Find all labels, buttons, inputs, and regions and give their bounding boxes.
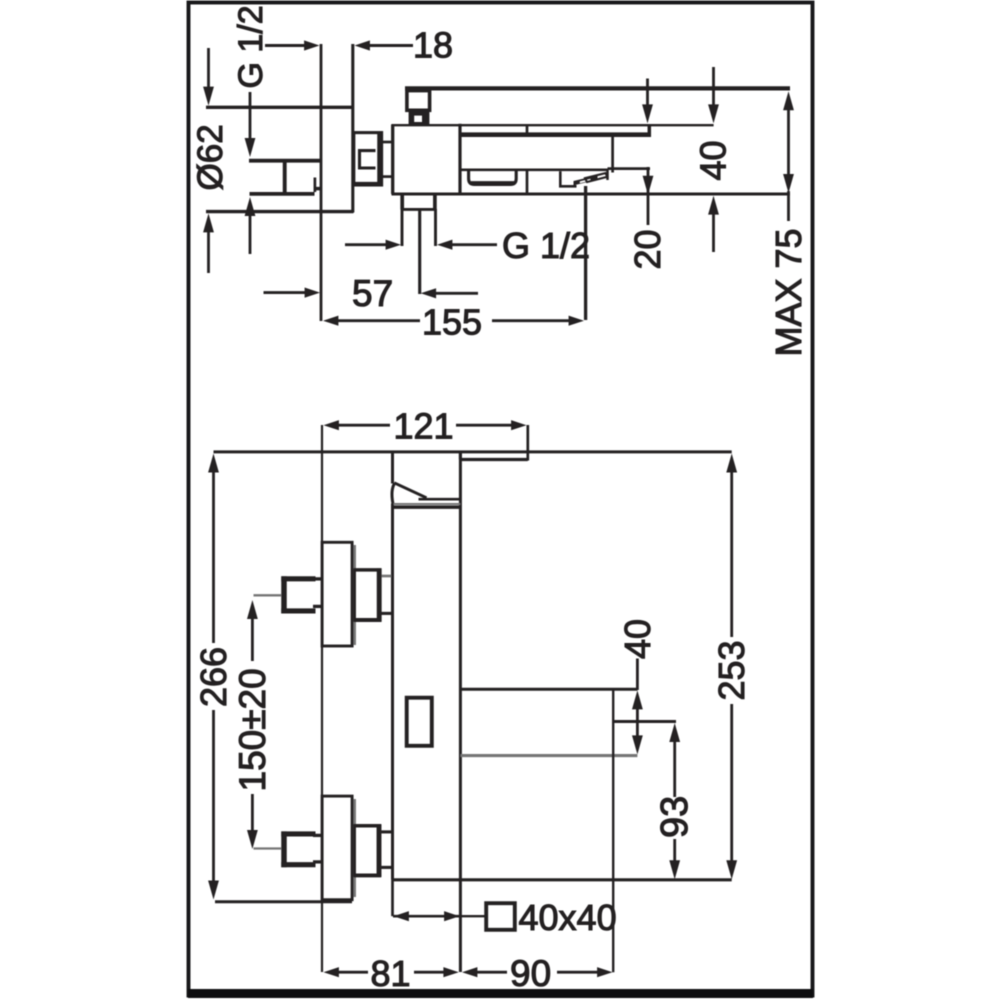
svg-text:MAX 75: MAX 75 [768, 228, 809, 356]
handle stem [409, 112, 430, 126]
dimension 57 right arrow [421, 288, 478, 298]
svg-text:150±20: 150±20 [232, 668, 273, 791]
outlet top line [460, 688, 637, 691]
lower union nut [281, 831, 315, 867]
baseline (bath rim line) [392, 193, 791, 196]
lower centre line stub [254, 847, 282, 849]
dimension 18 right arrow [355, 40, 414, 50]
pipe centre line [418, 209, 421, 294]
svg-text:155: 155 [422, 302, 482, 343]
aerator under spout [469, 171, 517, 185]
dimension 40 top arrow [708, 67, 719, 123]
lower band line right [608, 167, 651, 170]
supply G1/2 dimension lower arrow [245, 197, 256, 254]
dimension 93 bottom arrow [669, 839, 680, 879]
upper centre line stub [254, 594, 282, 596]
union stub to wall [315, 187, 321, 191]
valve body left edge [391, 125, 394, 195]
svg-text:253: 253 [711, 640, 752, 700]
wall plate right edge (side view) [351, 44, 354, 213]
dimension 81 right arrow [414, 967, 459, 977]
lower connector top line [381, 830, 391, 833]
dimension 253 top arrow [726, 454, 737, 638]
handle lever beak left curve [392, 483, 395, 503]
svg-text:20: 20 [627, 229, 668, 269]
svg-text:G 1/2: G 1/2 [232, 5, 270, 88]
lower connector right edge [433, 194, 437, 210]
spout width stub [391, 880, 394, 916]
drawing frame border [188, 3, 813, 999]
diverter lever (side view) [560, 171, 607, 186]
svg-text:Ø62: Ø62 [191, 124, 230, 190]
wall surface line [320, 44, 323, 321]
dimension 18 left arrow [265, 40, 320, 50]
svg-text:90: 90 [510, 953, 551, 994]
dimension 40 bottom arrow [708, 196, 719, 252]
extension line x322 [321, 425, 323, 972]
inner section vertical [611, 137, 614, 173]
supply G1/2 dimension upper arrow [245, 92, 256, 157]
top edge line [214, 450, 732, 453]
band division upper [526, 125, 529, 137]
body bottom line [392, 878, 732, 881]
dimension 121 right arrow [456, 420, 527, 430]
lower wall flange [322, 796, 355, 900]
dimension Ø62 top arrow [203, 48, 214, 106]
dimension 57 left arrow [264, 288, 321, 298]
svg-text:40x40: 40x40 [519, 897, 617, 938]
supply elbow bottom line [250, 192, 315, 196]
spout end cap [648, 125, 652, 137]
body top thin line [392, 124, 714, 126]
top step line [460, 458, 527, 461]
outlet right edge extension [612, 689, 614, 972]
upper union nut [281, 576, 315, 613]
nipple bottom line [382, 175, 392, 178]
dimension 20 top arrow [642, 79, 653, 124]
band division lower [526, 170, 529, 194]
G1/2 lower dim left arrow [345, 240, 401, 250]
lower band step corner [606, 169, 609, 180]
bottom extension line [215, 900, 352, 903]
extension line x527.8 [526, 425, 529, 461]
handle knob [407, 91, 430, 111]
dimension 253 bottom arrow [726, 704, 737, 879]
dimension 81 left arrow [324, 967, 369, 977]
dimension 40 outlet arrows [632, 690, 643, 754]
outlet step line [613, 720, 676, 723]
spout bottom thick line [460, 132, 650, 137]
svg-text:93: 93 [654, 796, 696, 838]
dimension 155 right arrow [492, 316, 584, 326]
svg-text:266: 266 [193, 647, 234, 707]
lower connector left edge [400, 194, 404, 210]
svg-text:18: 18 [413, 25, 453, 66]
lower band line left [460, 168, 608, 171]
dimension 150±20 top arrow [247, 600, 258, 661]
valve body right edge [458, 124, 461, 194]
top thick line (spout top) [405, 86, 790, 90]
label window on column [407, 698, 432, 746]
leader to square symbol [460, 915, 484, 917]
dimension 20 lower line with arrow [643, 167, 654, 225]
union small vertical [314, 178, 317, 193]
dimension 150±20 bottom arrow [247, 794, 258, 849]
svg-text:40: 40 [617, 619, 658, 659]
extension line x402 [401, 209, 404, 246]
lower union pipe lines [313, 835, 322, 862]
upper eccentric [354, 568, 381, 621]
lower eccentric [354, 824, 381, 877]
wall plate top edge [206, 106, 354, 109]
dimension 90 right arrow [557, 967, 613, 977]
dimension 266 bottom arrow [208, 710, 219, 900]
lower connector bottom line [381, 866, 391, 869]
top step vertical [459, 452, 462, 460]
handle joint line [419, 498, 461, 501]
wall plate bottom edge [206, 210, 354, 213]
spout width dimension arrows [393, 911, 460, 921]
svg-text:81: 81 [371, 953, 411, 994]
outlet bottom gray line [460, 754, 637, 757]
body column left edge lower [391, 504, 394, 880]
dimension 121 left arrow [324, 420, 391, 430]
handle joint gray line [394, 503, 461, 505]
square section symbol [486, 903, 515, 930]
supply pipe top line (behind wall) [249, 159, 320, 163]
nipple top line [382, 141, 392, 144]
svg-text:G 1/2: G 1/2 [502, 225, 590, 266]
body column right edge [459, 452, 462, 972]
dimension 93 top arrow [669, 723, 680, 797]
svg-text:57: 57 [352, 273, 393, 314]
dimension Ø62 bottom arrow [203, 213, 214, 273]
svg-text:121: 121 [394, 406, 454, 447]
G1/2 lower dim right arrow [437, 240, 497, 250]
handle joint dark line [392, 506, 460, 509]
dimension 90 left arrow [462, 967, 507, 977]
dimension 40 outlet upper line [636, 659, 639, 691]
eccentric inner slot [360, 151, 376, 168]
supply elbow vertical [283, 160, 287, 194]
extension line x435 [434, 209, 437, 246]
svg-text:40: 40 [693, 140, 734, 180]
upper wall flange [322, 542, 355, 646]
body column left edge upper [391, 452, 394, 484]
dimension 155 left arrow [323, 316, 420, 326]
lower connector bottom edge [401, 208, 437, 211]
upper union pipe lines [313, 579, 322, 607]
upper connector dark line [381, 612, 391, 615]
upper connector gray line [381, 575, 391, 578]
shower hose line [584, 186, 587, 320]
MAX 75 dimension line [783, 91, 794, 221]
dimension 266 top arrow [208, 454, 219, 644]
handle lever beak diagonal [394, 483, 426, 498]
eccentric connector box (side view) [354, 133, 382, 185]
